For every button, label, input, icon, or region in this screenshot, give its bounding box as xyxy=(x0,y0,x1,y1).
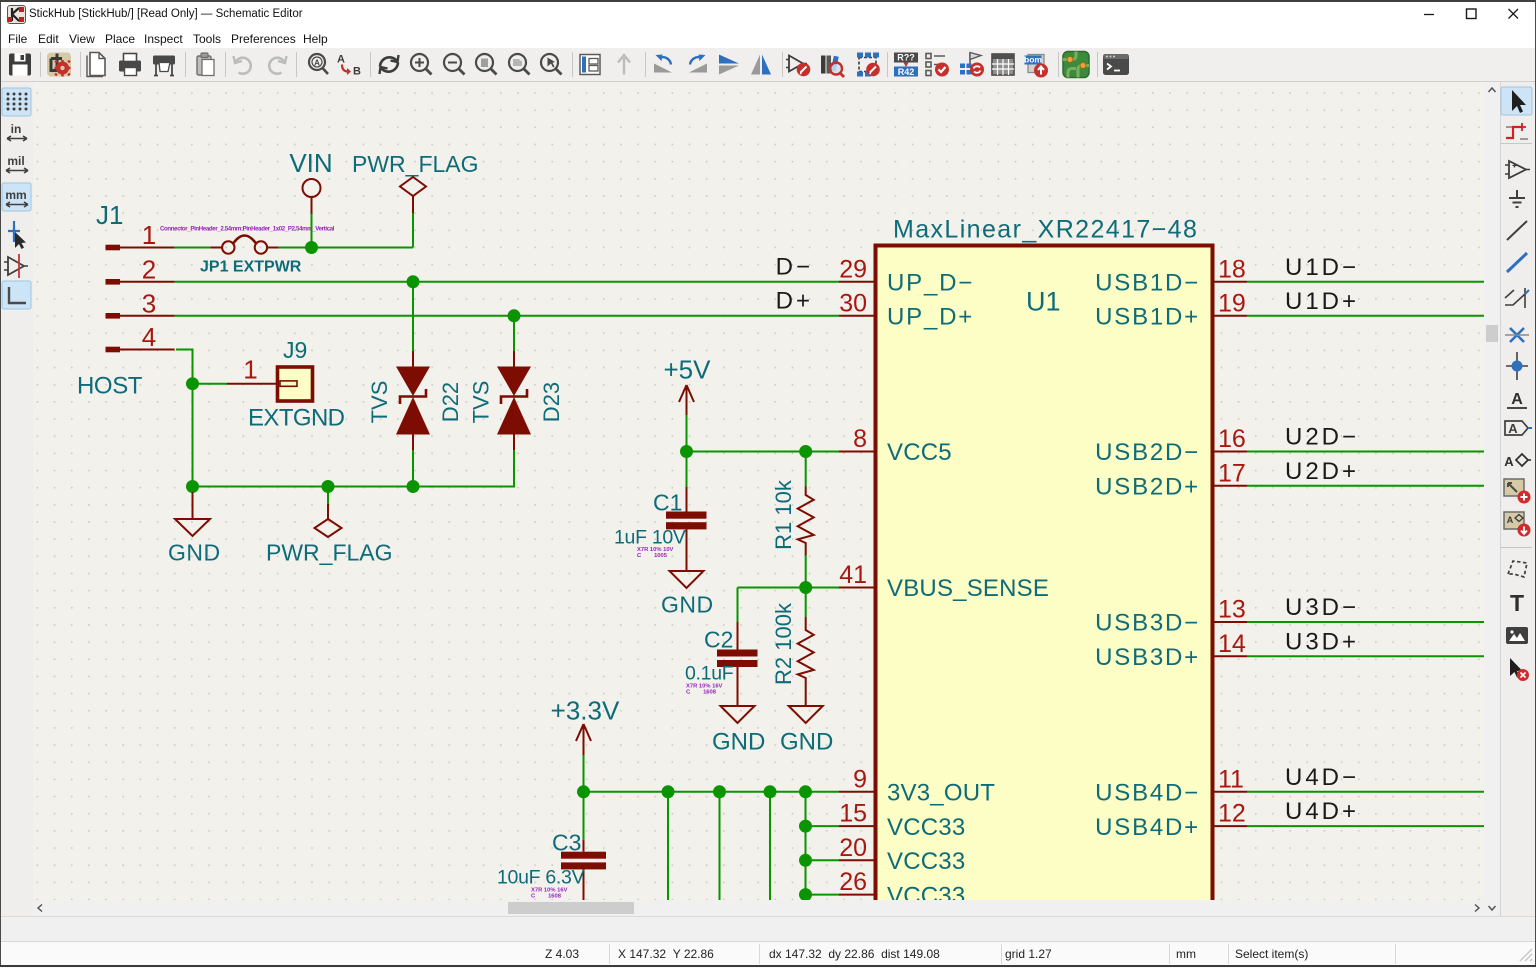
capacitor C1 xyxy=(666,487,707,571)
svg-text:16: 16 xyxy=(1218,425,1246,453)
svg-text:0.1uF: 0.1uF xyxy=(685,663,734,685)
wire VCC33 column xyxy=(805,792,807,900)
svg-text:T: T xyxy=(1510,590,1524,616)
svg-text:1uF 10V: 1uF 10V xyxy=(614,527,686,549)
U1 pin 26 lead (left) xyxy=(839,894,875,896)
svg-text:11: 11 xyxy=(1218,765,1244,793)
svg-text:PWR_FLAG: PWR_FLAG xyxy=(266,540,393,566)
svg-text:A: A xyxy=(1511,391,1523,408)
svg-text:29: 29 xyxy=(839,255,867,283)
U1 pin 16 lead (right) xyxy=(1214,451,1248,453)
wire net U4D+ xyxy=(1247,825,1484,827)
svg-text:U1: U1 xyxy=(1026,287,1061,317)
svg-text:20: 20 xyxy=(839,834,867,862)
svg-text:VCC5: VCC5 xyxy=(887,439,952,466)
svg-text:Connector_PinHeader_2.54mm:Pin: Connector_PinHeader_2.54mm:PinHeader_1x0… xyxy=(160,226,335,233)
U1 pin 15 lead (left) xyxy=(839,825,875,827)
svg-text:18: 18 xyxy=(1218,255,1246,283)
svg-text:U1D+: U1D+ xyxy=(1285,288,1359,315)
connector J9 pin lead xyxy=(227,383,276,385)
junction 3V3 b xyxy=(713,785,726,798)
wire VBUS_SENSE xyxy=(738,587,840,589)
svg-text:VCC33: VCC33 xyxy=(887,882,965,900)
IC U1 MaxLinear_XR22417-48 body xyxy=(876,246,1213,946)
svg-text:R42: R42 xyxy=(898,67,915,77)
junction 3V3 c xyxy=(764,785,777,798)
junction 3V3 at C3 xyxy=(577,785,590,798)
wire net U2D&#8722; xyxy=(1247,451,1484,453)
svg-text:D23: D23 xyxy=(539,382,564,422)
U1 pin 30 lead (left) xyxy=(839,315,875,317)
junction D+ at D23 xyxy=(508,309,521,322)
svg-text:USB2D−: USB2D− xyxy=(1095,439,1200,466)
jumper JP1 xyxy=(210,236,278,254)
svg-text:C 1608: C 1608 xyxy=(531,894,562,900)
wire VIN to node xyxy=(311,214,313,248)
wire GND rail xyxy=(193,450,515,487)
U1 pin 14 lead (right) xyxy=(1214,655,1248,657)
wire D+ to D23 xyxy=(513,316,515,351)
resistor R2 xyxy=(798,617,814,706)
svg-text:C1: C1 xyxy=(653,490,682,516)
svg-text:9: 9 xyxy=(853,765,867,793)
svg-text:3: 3 xyxy=(142,288,156,318)
wire net U1D&#8722; xyxy=(1247,281,1484,283)
junction VCC33 pin20 xyxy=(799,854,812,867)
svg-text:12: 12 xyxy=(1218,800,1246,828)
svg-text:3V3_OUT: 3V3_OUT xyxy=(887,780,995,807)
svg-text:GND: GND xyxy=(712,729,765,756)
power symbol VIN circle xyxy=(303,179,321,197)
wire J1 pin1 to JP1 xyxy=(175,247,211,249)
svg-text:in: in xyxy=(11,122,22,136)
U1 pin 20 lead (left) xyxy=(839,859,875,861)
svg-text:VBUS_SENSE: VBUS_SENSE xyxy=(887,575,1049,602)
connector J1 pin 3 lead xyxy=(120,315,175,317)
ground GND (left) xyxy=(175,492,210,536)
svg-text:41: 41 xyxy=(839,561,867,589)
svg-text:A: A xyxy=(314,59,320,68)
svg-text:UP_D+: UP_D+ xyxy=(887,304,974,331)
power flag diamond xyxy=(400,177,426,196)
wire net U3D+ xyxy=(1247,655,1484,657)
ground at R2 xyxy=(789,706,823,723)
svg-text:C 1608: C 1608 xyxy=(686,690,717,696)
svg-text:C2: C2 xyxy=(704,627,733,653)
svg-text:2: 2 xyxy=(142,254,156,284)
junction 3V3 at VCC column xyxy=(799,785,812,798)
connector J9 body xyxy=(278,367,313,401)
connector J1 pin 1 lead xyxy=(120,247,175,249)
svg-text:mm: mm xyxy=(5,188,26,202)
svg-text:MaxLinear_XR22417−48: MaxLinear_XR22417−48 xyxy=(893,216,1198,244)
junction +5V at C1 xyxy=(680,445,693,458)
svg-text:15: 15 xyxy=(839,800,867,828)
wire VCC33 pin15 xyxy=(806,825,840,827)
U1 pin 13 lead (right) xyxy=(1214,621,1248,623)
connector J1 pin 4 lead xyxy=(120,349,175,351)
wire D- to D22 xyxy=(412,282,414,351)
svg-text:USB1D+: USB1D+ xyxy=(1095,304,1200,331)
wire +5V to VCC5 pin xyxy=(687,451,840,453)
wire net U3D&#8722; xyxy=(1247,621,1484,623)
wire C1 top xyxy=(686,452,688,488)
wire +5V stem xyxy=(686,415,688,452)
junction +5V at R1 xyxy=(799,445,812,458)
power symbol +5V arrow xyxy=(679,385,694,415)
resistor R1 xyxy=(798,487,814,557)
svg-text:+3.3V: +3.3V xyxy=(551,696,620,726)
svg-text:D+: D+ xyxy=(776,288,813,315)
junction VBUS_SENSE at R1/R2 xyxy=(799,581,812,594)
svg-text:19: 19 xyxy=(1218,289,1246,317)
wire net U1D+ xyxy=(1247,315,1484,317)
U1 pin 11 lead (right) xyxy=(1214,791,1248,793)
wire VCC33 pin20 xyxy=(806,859,840,861)
svg-text:U3D+: U3D+ xyxy=(1285,628,1359,655)
capacitor C3 xyxy=(561,840,606,900)
ground at C1 xyxy=(670,571,704,588)
svg-text:U4D−: U4D− xyxy=(1285,764,1359,791)
connector J1 pin 1 body box xyxy=(106,245,121,251)
junction GND rail at PWR_FLAG xyxy=(322,480,335,493)
svg-text:B: B xyxy=(353,66,361,78)
svg-text:GND: GND xyxy=(661,592,714,618)
svg-text:10uF 6.3V: 10uF 6.3V xyxy=(497,867,585,889)
svg-text:U3D−: U3D− xyxy=(1285,594,1359,621)
ground at C2 xyxy=(721,706,755,723)
junction GND rail at HOST column xyxy=(186,480,199,493)
U1 pin 18 lead (right) xyxy=(1214,281,1248,283)
connector J1 pin 2 body box xyxy=(106,279,121,285)
wire JP1 to VIN node xyxy=(279,247,413,249)
wire D+ net xyxy=(175,315,839,317)
wire D22 to GND rail xyxy=(412,450,414,487)
svg-text:26: 26 xyxy=(839,868,867,896)
svg-text:EXTGND: EXTGND xyxy=(248,405,345,432)
TVS diode D22 xyxy=(396,351,430,450)
power symbol VIN pin xyxy=(311,197,313,214)
wire net U4D&#8722; xyxy=(1247,791,1484,793)
svg-text:8: 8 xyxy=(853,425,867,453)
svg-text:USB2D+: USB2D+ xyxy=(1095,474,1200,501)
svg-text:USB4D+: USB4D+ xyxy=(1095,814,1200,841)
svg-text:TVS: TVS xyxy=(469,381,494,424)
wire HOST to J9 xyxy=(193,383,228,385)
wire +3.3V stem xyxy=(583,755,585,792)
svg-text:R1 10k: R1 10k xyxy=(771,479,796,550)
svg-text:J9: J9 xyxy=(283,337,307,363)
connector J1 pin 2 lead xyxy=(120,281,175,283)
power flag pin xyxy=(412,196,414,213)
svg-text:USB3D−: USB3D− xyxy=(1095,610,1200,637)
TVS diode D23 xyxy=(497,351,531,450)
wire 3V3 rail xyxy=(584,791,840,793)
U1 pin 9 lead (left) xyxy=(839,791,875,793)
wire 3V3 drop b xyxy=(719,792,721,900)
svg-text:U4D+: U4D+ xyxy=(1285,798,1359,825)
U1 pin 29 lead (left) xyxy=(839,281,875,283)
wire 3V3 drop a xyxy=(667,792,669,900)
capacitor C2 xyxy=(717,622,758,706)
connector J1 pin 4 body box xyxy=(106,347,121,353)
wire C3 top xyxy=(583,792,585,840)
U1 pin 17 lead (right) xyxy=(1214,485,1248,487)
svg-text:mil: mil xyxy=(7,154,24,168)
svg-text:1: 1 xyxy=(243,355,257,385)
junction node VIN xyxy=(305,241,318,254)
svg-text:D22: D22 xyxy=(438,382,463,422)
svg-text:1: 1 xyxy=(142,220,156,250)
svg-text:13: 13 xyxy=(1218,596,1246,624)
junction GND rail at D22 xyxy=(407,480,420,493)
svg-text:TVS: TVS xyxy=(367,381,392,424)
svg-text:D−: D− xyxy=(776,254,813,281)
junction 3V3 a xyxy=(662,785,675,798)
wire net U2D+ xyxy=(1247,485,1484,487)
wire J1 pin4 to GND rail xyxy=(176,350,193,487)
wire PWR_FLAG bottom stem xyxy=(327,487,329,505)
connector J9 inner pad xyxy=(280,381,297,386)
svg-text:17: 17 xyxy=(1218,459,1246,487)
svg-text:VIN: VIN xyxy=(289,148,332,178)
junction node HOST xyxy=(186,377,199,390)
svg-text:U2D+: U2D+ xyxy=(1285,458,1359,485)
U1 pin 19 lead (right) xyxy=(1214,315,1248,317)
wire R1 bottom xyxy=(805,555,807,588)
wire 3V3 drop c xyxy=(769,792,771,900)
svg-text:30: 30 xyxy=(839,289,867,317)
svg-text:A: A xyxy=(337,54,345,66)
svg-text:PWR_FLAG: PWR_FLAG xyxy=(352,151,479,177)
junction VCC33 pin26 xyxy=(799,888,812,901)
wire D- net xyxy=(175,281,839,283)
svg-text:GND: GND xyxy=(780,729,833,756)
connector J1 pin 3 body box xyxy=(106,313,121,319)
svg-text:U2D−: U2D− xyxy=(1285,424,1359,451)
svg-text:USB1D−: USB1D− xyxy=(1095,270,1200,297)
wire PWR_FLAG stem xyxy=(412,213,414,248)
svg-text:USB4D−: USB4D− xyxy=(1095,780,1200,807)
svg-text:J1: J1 xyxy=(96,200,123,230)
svg-text:VCC33: VCC33 xyxy=(887,848,965,875)
svg-text:+5V: +5V xyxy=(664,355,712,385)
power flag (bottom) pin xyxy=(327,504,329,519)
svg-text:C 1005: C 1005 xyxy=(637,553,668,559)
svg-text:A: A xyxy=(1504,454,1514,469)
svg-text:R2 100k: R2 100k xyxy=(771,602,796,685)
wire R2 top xyxy=(805,588,807,618)
svg-text:USB3D+: USB3D+ xyxy=(1095,644,1200,671)
wire VCC33 pin26 xyxy=(806,894,840,896)
power flag (bottom) diamond xyxy=(315,519,342,537)
svg-text:HOST: HOST xyxy=(77,373,143,400)
U1 pin 8 lead (left) xyxy=(839,451,875,453)
wire C2 branch xyxy=(737,588,739,623)
power symbol +3.3V arrow xyxy=(576,724,591,755)
svg-text:VCC33: VCC33 xyxy=(887,814,965,841)
svg-text:4: 4 xyxy=(142,322,156,352)
svg-text:A: A xyxy=(1508,421,1518,436)
svg-text:UP_D−: UP_D− xyxy=(887,270,974,297)
junction VCC33 pin15 xyxy=(799,820,812,833)
junction D- at D22 xyxy=(407,275,420,288)
svg-text:GND: GND xyxy=(168,540,221,566)
wire R1 top xyxy=(805,452,807,487)
svg-text:R??: R?? xyxy=(897,53,915,63)
svg-text:JP1 EXTPWR: JP1 EXTPWR xyxy=(200,259,302,276)
U1 pin 41 lead (left) xyxy=(839,587,875,589)
svg-text:bom: bom xyxy=(1024,55,1042,65)
svg-text:C3: C3 xyxy=(552,830,581,856)
svg-text:A: A xyxy=(1507,515,1514,525)
U1 pin 12 lead (right) xyxy=(1214,825,1248,827)
svg-text:U1D−: U1D− xyxy=(1285,254,1359,281)
svg-text:14: 14 xyxy=(1218,630,1246,658)
